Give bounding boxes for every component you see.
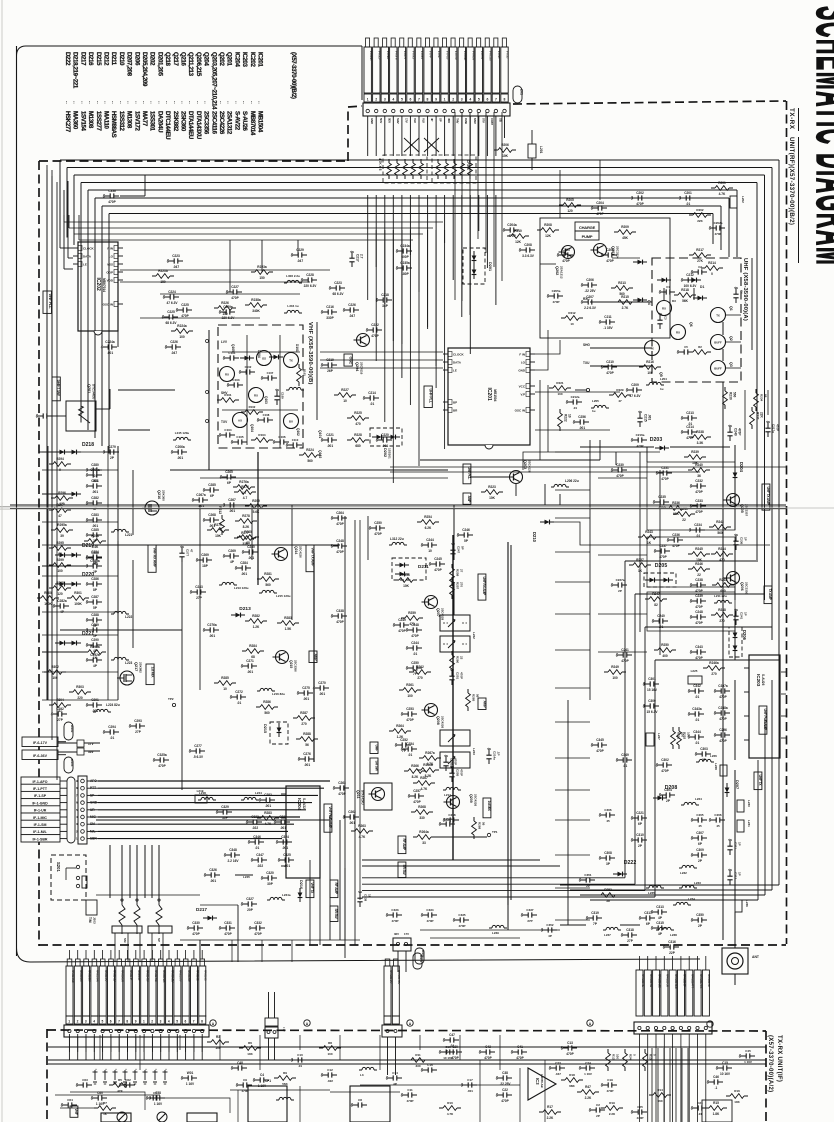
svg-text:C332: C332 [254,921,262,925]
svg-text:10: 10 [343,399,347,403]
svg-text:R208: R208 [544,223,552,227]
svg-text:12K: 12K [545,234,552,238]
svg-text:LVV: LVV [221,340,228,344]
svg-text:.001: .001 [248,556,254,560]
svg-text:270: 270 [711,672,717,676]
svg-text:.1P: .1P [497,751,501,756]
svg-text:27K: 27K [697,259,704,263]
svg-text:C217: C217 [356,254,360,262]
svg-text:TX-RX UNIT(IF): TX-RX UNIT(IF) [776,1035,782,1082]
svg-text:.001: .001 [304,763,310,767]
svg-text:39: 39 [60,534,64,538]
svg-text:S-AU26: S-AU26 [761,674,765,686]
svg-text:D201,205: D201,205 [156,52,163,77]
svg-text:L224: L224 [695,797,702,801]
svg-text:VCC: VCC [519,385,526,389]
svg-text:C214a: C214a [493,751,497,760]
svg-text:BUFF: BUFF [714,341,722,345]
svg-text:SP: SP [439,118,443,122]
svg-text:RX: RX [662,307,666,311]
svg-text:C10: C10 [297,1053,303,1057]
svg-text:C2: C2 [698,265,702,269]
svg-text:L204: L204 [660,377,667,381]
svg-text:1: 1 [444,97,446,101]
svg-text:R268: R268 [418,805,426,809]
svg-text:56K: 56K [282,1082,288,1086]
svg-text:C211: C211 [604,315,612,319]
svg-text:L228: L228 [714,763,718,770]
svg-text:L216 82u: L216 82u [272,692,285,696]
svg-text:560: 560 [307,459,313,463]
svg-text:C257: C257 [413,789,421,793]
svg-text:D216: D216 [299,880,303,889]
svg-text:C271: C271 [246,659,254,663]
svg-text:C276a: C276a [207,623,217,627]
svg-text:.001: .001 [247,670,253,674]
svg-text:30P: 30P [267,882,274,886]
svg-text:C107: C107 [267,371,274,375]
svg-text:Q206,215: Q206,215 [195,52,202,77]
svg-text:(X57-3370-00)(B/2): (X57-3370-00)(B/2) [290,52,297,99]
svg-text:C323: C323 [279,815,287,819]
svg-text:470P: 470P [695,621,703,625]
svg-text:IC3: IC3 [535,1078,540,1085]
svg-text:IF-1-MIC: IF-1-MIC [33,816,47,820]
svg-text:470P: 470P [661,769,669,773]
svg-text:L235: L235 [648,891,655,895]
svg-text:C226: C226 [170,340,178,344]
svg-text:10 16V: 10 16V [443,1056,453,1060]
svg-text:C302: C302 [661,758,669,762]
svg-text:.001: .001 [648,414,652,420]
svg-text:.01: .01 [695,695,700,699]
svg-text:IC203: IC203 [241,52,248,67]
svg-text:C23: C23 [555,1061,561,1065]
svg-text:2P: 2P [596,1114,600,1118]
svg-text:+: + [155,1067,157,1071]
svg-text:4: 4 [93,1020,95,1024]
svg-text:.01: .01 [408,753,413,757]
svg-text:C282a: C282a [57,599,67,603]
svg-text:Q201: Q201 [226,52,233,66]
svg-text:C221: C221 [326,433,334,437]
svg-text:R102: R102 [249,405,256,409]
svg-text:1 16V: 1 16V [744,1060,752,1064]
svg-text:BP: BP [453,401,457,405]
svg-text:470P: 470P [636,444,643,448]
svg-text:VLV: VLV [422,118,426,123]
svg-text:27P: 27P [57,718,64,722]
svg-text:LM358-AB: LM358-AB [540,1074,544,1088]
svg-text:L224 82u: L224 82u [106,703,120,707]
svg-text:C214: C214 [686,425,694,429]
svg-text:R101: R101 [224,393,232,397]
svg-text:R276a: R276a [239,480,249,484]
svg-text:27P: 27P [135,730,142,734]
svg-text:C289: C289 [91,623,99,627]
svg-text:.001: .001 [327,444,333,448]
svg-text:R264a: R264a [419,830,429,834]
svg-text:56: 56 [606,899,610,903]
svg-text:Q211,213: Q211,213 [187,52,194,77]
svg-text:C346: C346 [253,835,261,839]
svg-text:1SS301: 1SS301 [388,448,392,459]
svg-text:15 16V: 15 16V [647,688,658,692]
svg-text:.001: .001 [265,804,271,808]
svg-text:.01: .01 [695,741,700,745]
svg-text:68 6.3V: 68 6.3V [333,292,345,296]
svg-text:C342: C342 [693,684,701,688]
svg-text:R8: R8 [328,1041,332,1045]
svg-text:1SS312: 1SS312 [118,111,125,132]
svg-text:L222: L222 [125,615,132,619]
svg-text:R295a: R295a [57,523,67,527]
svg-text:201: 201 [520,89,524,95]
svg-text:C292a: C292a [90,653,100,657]
svg-text:L223: L223 [125,661,132,665]
svg-text:4: 4 [168,1020,170,1024]
svg-text:8.2K: 8.2K [412,775,419,779]
svg-text:C326: C326 [209,868,217,872]
svg-text:10K: 10K [247,1052,253,1056]
svg-text:UHF TX: UHF TX [758,775,762,787]
svg-text:C279: C279 [108,445,116,449]
svg-text:C256: C256 [578,415,586,419]
svg-text:C324: C324 [281,835,289,839]
svg-text:2SC3356: 2SC3356 [294,660,298,672]
svg-text:L306 2.2u: L306 2.2u [286,274,300,278]
svg-text:V.P: V.P [520,393,525,397]
svg-text:R234: R234 [760,394,764,402]
svg-text:L3: L3 [360,1073,364,1077]
svg-text:Q5: Q5 [659,372,663,377]
svg-text:C109: C109 [281,392,285,399]
svg-text:C330: C330 [192,921,200,925]
svg-text:5TV: 5TV [481,118,485,123]
svg-text:4.7: 4.7 [242,491,247,495]
svg-text:Q201: Q201 [611,246,615,255]
svg-text:470P: 470P [224,932,232,936]
svg-text:4.7K: 4.7K [427,762,434,766]
svg-text:Q2: Q2 [729,336,733,341]
svg-text:C212a: C212a [571,395,580,399]
svg-text:L218: L218 [199,791,206,795]
svg-text:C38: C38 [502,1071,508,1075]
svg-text:22K: 22K [697,219,703,223]
svg-text:470P: 470P [596,212,604,216]
svg-text:D216: D216 [87,52,94,66]
svg-text:470P: 470P [606,1089,613,1093]
svg-text:L226: L226 [710,754,717,758]
svg-text:470P: 470P [606,259,614,263]
svg-text:.01: .01 [298,1064,303,1068]
svg-text:R227: R227 [341,388,349,392]
svg-text:D101: D101 [295,344,299,352]
svg-text:C7: C7 [153,1091,157,1095]
svg-text:MB1504: MB1504 [257,111,264,133]
svg-text:Q218: Q218 [164,52,171,66]
svg-text:Q202: Q202 [555,266,559,275]
svg-text:L201: L201 [539,146,543,153]
svg-text:RX: RX [676,331,680,335]
svg-text:IC204: IC204 [233,52,240,67]
svg-text:OOP: OOP [106,271,113,275]
svg-text:IC202: IC202 [95,278,101,292]
svg-text:R238a: R238a [251,298,261,302]
svg-text:10K: 10K [215,534,222,538]
svg-text:C231: C231 [661,466,669,470]
svg-text:R295: R295 [56,541,64,545]
svg-text:.01: .01 [695,718,700,722]
svg-text:R231: R231 [756,412,760,420]
svg-text:R228: R228 [354,433,362,437]
svg-text:RF-W202-SRV: RF-W202-SRV [397,970,401,985]
svg-text:C220: C220 [381,433,389,437]
svg-text:Q203: Q203 [523,460,527,469]
svg-text:C106: C106 [278,435,286,439]
svg-text:R201: R201 [718,181,726,185]
svg-text:R210: R210 [514,229,522,233]
svg-text:R283: R283 [264,811,272,815]
svg-text:47: 47 [58,514,62,518]
svg-text:2SC3324: 2SC3324 [616,246,620,259]
svg-text:RX: RX [254,394,258,398]
svg-text:.001: .001 [92,562,98,566]
svg-text:56K: 56K [682,299,689,303]
svg-text:C209: C209 [631,383,639,387]
svg-text:Q201: Q201 [87,384,91,393]
svg-text:470P: 470P [672,544,680,548]
svg-text:C62: C62 [125,1078,131,1082]
svg-text:C282: C282 [264,793,272,797]
svg-text:2SC3356: 2SC3356 [745,582,749,594]
svg-text:C202: C202 [636,191,644,195]
svg-text:D211: D211 [418,564,429,569]
svg-text:470P: 470P [336,620,344,624]
svg-text:D3: D3 [672,299,676,303]
svg-text:C338: C338 [336,609,344,613]
svg-text:R7: R7 [103,1101,107,1105]
svg-text:3: 3 [160,1020,162,1024]
svg-text:Q217: Q217 [172,52,179,66]
svg-text:D222: D222 [624,860,637,866]
svg-text:SHG: SHG [583,343,590,347]
svg-text:470P: 470P [336,522,344,526]
svg-text:33: 33 [422,841,426,845]
svg-text:C17: C17 [467,1078,473,1082]
svg-text:.001: .001 [467,1089,473,1093]
svg-text:17V: 17V [404,932,409,936]
svg-text:.001: .001 [107,351,113,355]
svg-text:C269: C269 [201,553,209,557]
svg-text:C25: C25 [637,1105,643,1109]
svg-text:270: 270 [301,722,307,726]
svg-text:C293: C293 [134,719,142,723]
svg-text:22: 22 [682,518,686,522]
svg-text:SR SW: SR SW [334,909,338,920]
svg-text:9: 9 [435,97,437,101]
svg-text:R3: R3 [216,1035,220,1039]
svg-text:C2: C2 [596,1103,600,1107]
svg-text:C5: C5 [684,345,688,349]
svg-text:IC204: IC204 [297,798,302,811]
svg-text:S-AV22: S-AV22 [302,798,306,809]
svg-text:5.6K: 5.6K [253,510,260,514]
svg-text:OSC IN: OSC IN [103,303,113,307]
svg-text:(X57-3370-00)(A/2): (X57-3370-00)(A/2) [767,1035,773,1092]
svg-text:2SC3357: 2SC3357 [745,504,749,516]
svg-text:+: + [115,1067,117,1071]
svg-text:W203: W203 [70,759,74,767]
svg-text:470: 470 [355,422,361,426]
svg-text:4P: 4P [430,118,434,121]
svg-text:C216a: C216a [636,433,645,437]
svg-text:2: 2 [452,97,454,101]
svg-text:R256: R256 [402,573,410,577]
svg-text:L245: L245 [243,875,250,879]
svg-text:4P: 4P [548,934,552,938]
svg-text:L304 1u: L304 1u [287,304,298,308]
svg-text:C343a: C343a [692,707,702,711]
svg-text:82: 82 [654,603,658,607]
svg-text:36V: 36V [394,932,399,936]
svg-text:TX-RX: TX-RX [788,108,795,130]
svg-text:C315: C315 [656,921,664,925]
svg-text:AX: AX [238,419,242,423]
svg-text:VHF TX: VHF TX [310,883,314,895]
svg-text:D205,204,209: D205,204,209 [141,52,148,87]
svg-text:R298: R298 [56,581,64,585]
svg-text:R265: R265 [472,694,476,702]
svg-text:IF-1-SM: IF-1-SM [34,823,47,827]
svg-text:3: 3 [461,97,463,101]
svg-text:4: 4 [469,97,471,101]
svg-text:470P: 470P [413,800,421,804]
svg-text:ANT: ANT [752,955,760,959]
svg-text:.01: .01 [413,652,418,656]
svg-text:1 16V: 1 16V [186,1082,195,1086]
svg-text:Q217: Q217 [134,662,138,671]
svg-text:D210: D210 [118,52,125,66]
svg-text:GND: GND [518,369,526,373]
svg-text:400: 400 [662,654,668,658]
svg-text:C225: C225 [167,310,175,314]
svg-text:IF-1-UR: IF-1-UR [34,809,47,813]
svg-text:D210: D210 [532,532,537,543]
svg-text:Q204: Q204 [355,362,359,372]
svg-text:C275: C275 [302,686,310,690]
svg-text:340K: 340K [252,309,260,313]
svg-text:C347: C347 [256,853,264,857]
svg-text:45: 45 [698,824,702,828]
svg-text:SR SW: SR SW [374,761,378,772]
svg-text:8.2K: 8.2K [425,774,432,778]
svg-text:R212: R212 [568,311,576,315]
svg-text:560: 560 [733,392,737,398]
svg-text:CLOCK: CLOCK [453,353,464,357]
svg-text:D218,219~221: D218,219~221 [72,52,79,89]
svg-text:47K: 47K [117,1089,123,1093]
svg-text:4P: 4P [393,1082,397,1086]
svg-text:IF-1-SBR: IF-1-SBR [33,837,48,841]
svg-text:R287: R287 [300,711,308,715]
svg-text:470P: 470P [411,634,419,638]
svg-text:1: 1 [143,1020,145,1024]
svg-text:C251: C251 [456,672,460,680]
svg-text:R221: R221 [556,381,564,385]
svg-text:VLV: VLV [413,118,417,123]
svg-text:4.7K: 4.7K [359,835,366,839]
svg-text:R240: R240 [695,463,703,467]
svg-text:R243: R243 [645,530,653,534]
svg-text:C16: C16 [427,1063,433,1067]
svg-text:R266: R266 [411,764,419,768]
svg-text:+: + [135,1067,137,1071]
svg-text:2.7K: 2.7K [622,306,629,310]
svg-text:3.3K: 3.3K [697,441,704,445]
svg-text:10K: 10K [502,154,509,158]
svg-text:Q1: Q1 [729,306,733,311]
svg-text:10: 10 [428,549,432,553]
svg-text:C221: C221 [636,811,644,815]
svg-text:10K: 10K [734,1100,740,1104]
svg-text:R259: R259 [408,611,416,615]
svg-text:47: 47 [618,399,622,403]
svg-text:IC202: IC202 [249,52,256,67]
svg-text:1u: 1u [592,409,596,413]
svg-text:R298: R298 [91,534,99,538]
svg-text:470P: 470P [552,300,559,304]
svg-text:R260: R260 [456,656,460,664]
svg-text:2SC4226: 2SC4226 [218,111,225,135]
svg-text:560: 560 [265,583,271,587]
svg-text:HSK277: HSK277 [64,111,71,133]
svg-text:C268: C268 [208,513,216,517]
svg-text:R11: R11 [415,1053,421,1057]
svg-text:C248: C248 [336,539,344,543]
svg-text:C284: C284 [240,561,248,565]
svg-text:56: 56 [305,743,309,747]
svg-text:R230: R230 [729,392,733,400]
svg-text:C277: C277 [194,744,202,748]
svg-text:UHF: UHF [374,745,378,753]
svg-text:2SC4128: 2SC4128 [528,460,532,473]
svg-text:C247: C247 [457,546,461,554]
svg-text:.001: .001 [177,456,183,460]
svg-text:D202: D202 [383,448,387,457]
svg-text:C237a: C237a [616,578,625,582]
svg-text:L238: L238 [670,933,677,937]
svg-text:DA204U: DA204U [156,111,163,133]
svg-text:470P: 470P [695,490,703,494]
svg-text:R299: R299 [252,499,260,503]
svg-text:L221: L221 [125,533,132,537]
svg-text:4SV: 4SV [447,118,451,123]
svg-text:M1308: M1308 [126,111,133,129]
svg-text:6: 6 [486,97,488,101]
svg-text:5CV: 5CV [379,118,383,123]
svg-text:100: 100 [179,335,185,339]
svg-text:C110: C110 [292,438,299,442]
svg-text:2.2K: 2.2K [585,1096,592,1100]
svg-text:470P: 470P [398,629,406,633]
svg-text:2SK360: 2SK360 [180,111,187,132]
svg-text:7: 7 [193,1020,195,1024]
svg-text:R224a: R224a [177,324,187,328]
svg-text:1: 1 [367,97,369,101]
svg-text:R205: R205 [566,198,574,202]
svg-text:R252: R252 [683,732,687,740]
